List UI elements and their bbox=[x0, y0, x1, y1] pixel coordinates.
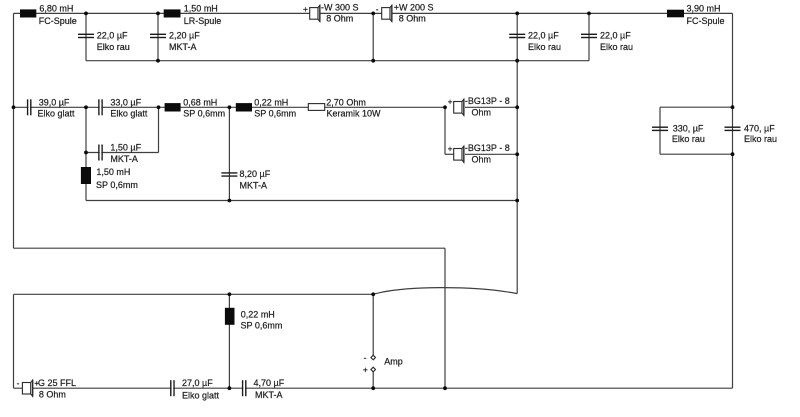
svg-text:FC-Spule: FC-Spule bbox=[39, 16, 77, 26]
svg-text:Elko rau: Elko rau bbox=[744, 134, 777, 144]
resistor 2,70 Ohm Keramik 10W bbox=[308, 97, 381, 118]
speaker W 200 S bbox=[376, 3, 434, 24]
svg-text:8 Ohm: 8 Ohm bbox=[326, 13, 353, 23]
capacitor 22,0 uF Elko rau (x=517) bbox=[509, 30, 561, 52]
capacitor 8,20 uF MKT-A (shunt) bbox=[221, 169, 270, 191]
inductor 1,50 mH SP 0,6mm (vertical) bbox=[81, 167, 138, 190]
amp terminal plus bbox=[363, 365, 376, 375]
svg-text:Elko rau: Elko rau bbox=[600, 42, 633, 52]
svg-text:Amp: Amp bbox=[384, 356, 403, 366]
node dot (158,13) bbox=[156, 12, 160, 16]
capacitor 33,0 uF Elko glatt bbox=[99, 97, 148, 118]
capacitor 27,0 uF Elko glatt bbox=[171, 378, 220, 401]
svg-text:8 Ohm: 8 Ohm bbox=[399, 13, 426, 23]
node dot (86,107) bbox=[84, 105, 88, 109]
node dot (732,107) bbox=[731, 105, 735, 109]
wire amp plus lead bbox=[372, 372, 374, 389]
node dot (158,107) bbox=[157, 105, 161, 109]
svg-text:1,50 µF: 1,50 µF bbox=[110, 143, 141, 153]
wire top rail y=13 bbox=[14, 12, 733, 14]
wire branch y=152.5 bbox=[86, 152, 159, 154]
svg-text:330, µF: 330, µF bbox=[673, 123, 704, 133]
svg-text:-: - bbox=[376, 4, 379, 14]
wire amp minus lead bbox=[372, 294, 374, 355]
wire shunt rail x=158 top bbox=[157, 13, 159, 60]
svg-text:-BG13P - 8: -BG13P - 8 bbox=[465, 96, 510, 106]
svg-text:Keramik 10W: Keramik 10W bbox=[327, 109, 382, 119]
node dot (373,388) bbox=[371, 386, 375, 390]
svg-text:470, µF: 470, µF bbox=[744, 123, 775, 133]
inductor 3,90 mH FC-Spule bbox=[667, 3, 725, 26]
wire speaker2 row y=154 bbox=[445, 153, 454, 155]
capacitor 330 uF Elko rau bbox=[652, 123, 705, 144]
speaker W 300 S bbox=[303, 3, 359, 24]
wire bottom rail y=388 bbox=[14, 387, 733, 389]
speaker BG13P upper bbox=[448, 96, 510, 117]
wire vertical x=229.5 bottom inductor bbox=[228, 294, 230, 388]
svg-text:G 25 FFL: G 25 FFL bbox=[38, 378, 76, 388]
svg-text:39,0 µF: 39,0 µF bbox=[39, 97, 70, 107]
svg-text:MKT-A: MKT-A bbox=[240, 180, 268, 190]
svg-text:Ohm: Ohm bbox=[472, 155, 492, 165]
node dot (517,200) bbox=[515, 199, 519, 203]
capacitor 22,0 uF Elko rau (x=86) bbox=[78, 30, 130, 52]
node dot (86,152.5) bbox=[84, 151, 88, 155]
svg-text:SP 0,6mm: SP 0,6mm bbox=[183, 109, 225, 119]
svg-text:Elko glatt: Elko glatt bbox=[182, 391, 220, 401]
svg-text:-: - bbox=[17, 378, 20, 388]
wire shunt rail x=86 top bbox=[85, 13, 87, 60]
svg-text:-W 300 S: -W 300 S bbox=[321, 3, 359, 13]
node dot (229,200) bbox=[228, 199, 232, 203]
svg-text:8,20 µF: 8,20 µF bbox=[240, 169, 271, 179]
node dot (373,294) bbox=[371, 292, 375, 296]
svg-text:+: + bbox=[448, 143, 453, 153]
speaker G 25 FFL bbox=[17, 378, 76, 400]
node dot (589,13) bbox=[587, 12, 591, 16]
wire shunt rail x=589 cap bbox=[588, 13, 590, 60]
capacitor 2,20 uF MKT-A (x=158) bbox=[150, 30, 200, 52]
svg-text:Elko rau: Elko rau bbox=[97, 42, 130, 52]
node dot (229,107) bbox=[228, 105, 232, 109]
wire main return rail x=517 bbox=[516, 61, 518, 294]
node dot (517,154) bbox=[515, 152, 519, 156]
svg-text:SP 0,6mm: SP 0,6mm bbox=[96, 180, 138, 190]
svg-text:1,50 mH: 1,50 mH bbox=[184, 3, 218, 13]
node dot (373,13) bbox=[371, 12, 375, 16]
svg-text:4,70 µF: 4,70 µF bbox=[254, 378, 285, 388]
wire right rail x=732 bbox=[732, 13, 734, 388]
node dot (517,13) bbox=[515, 12, 519, 16]
svg-text:22,0 µF: 22,0 µF bbox=[528, 30, 559, 40]
wire vertical x=445 speakers bbox=[444, 107, 446, 154]
node dot (158,61) bbox=[156, 59, 160, 63]
capacitor 4,70 uF MKT-A bbox=[243, 378, 285, 400]
svg-text:2,20 µF: 2,20 µF bbox=[169, 30, 200, 40]
inductor 0,22 mH SP 0,6mm (bottom) bbox=[225, 308, 282, 331]
svg-text:22,0 µF: 22,0 µF bbox=[97, 30, 128, 40]
wire left rail x=14 lower bbox=[13, 294, 15, 388]
wire return bus y=61 top section bbox=[86, 60, 589, 62]
inductor 0,22 mH SP 0,6mm (mid) bbox=[236, 97, 296, 118]
svg-text:33,0 µF: 33,0 µF bbox=[110, 97, 141, 107]
node dot (229,294) bbox=[228, 292, 232, 296]
wire vertical x=373 top bbox=[372, 13, 374, 60]
svg-text:-BG13P - 8: -BG13P - 8 bbox=[465, 143, 510, 153]
capacitor 39,0 uF Elko glatt bbox=[28, 97, 75, 118]
wire box 330uF top y=107 bbox=[660, 106, 733, 108]
node dot (732,154) bbox=[731, 152, 735, 156]
wire mid rail y=107 bbox=[14, 106, 446, 108]
node dot (373,61) bbox=[371, 59, 375, 63]
svg-text:LR-Spule: LR-Spule bbox=[184, 16, 222, 26]
svg-text:6,80 mH: 6,80 mH bbox=[39, 3, 73, 13]
node dot (14,107) bbox=[12, 105, 16, 109]
speaker BG13P lower bbox=[448, 143, 510, 164]
node dot (229,388) bbox=[228, 386, 232, 390]
svg-text:MKT-A: MKT-A bbox=[110, 154, 138, 164]
svg-text:FC-Spule: FC-Spule bbox=[687, 16, 725, 26]
wire y=248 horizontal bbox=[14, 247, 446, 249]
wire vertical x=229.5 shunt cap bbox=[228, 107, 230, 200]
svg-text:+: + bbox=[448, 96, 453, 106]
node dot (517,61) bbox=[515, 59, 519, 63]
inductor 6,80 mH FC-Spule bbox=[20, 3, 77, 26]
svg-text:8 Ohm: 8 Ohm bbox=[39, 389, 66, 399]
wire curved link to return rail bbox=[373, 288, 517, 295]
svg-text:1,50 mH: 1,50 mH bbox=[96, 167, 130, 177]
svg-text:Elko glatt: Elko glatt bbox=[38, 109, 76, 119]
wire speaker2 output to rail bbox=[465, 153, 517, 155]
svg-text:0,22 mH: 0,22 mH bbox=[254, 97, 288, 107]
svg-text:Ohm: Ohm bbox=[472, 108, 492, 118]
wire bottom section top y=294 bbox=[14, 293, 374, 295]
wire box 330uF left x=660 bbox=[659, 107, 661, 154]
svg-text:3,90 mH: 3,90 mH bbox=[687, 3, 721, 13]
capacitor 1,50 uF MKT-A bbox=[99, 143, 142, 164]
svg-text:SP 0,6mm: SP 0,6mm bbox=[241, 321, 283, 331]
svg-text:+: + bbox=[363, 365, 368, 375]
wire shunt rail x=517 cap bbox=[516, 13, 518, 60]
wire vertical x=158.5 branch bbox=[158, 107, 160, 152]
wire bottom bus y=200 mid section bbox=[86, 200, 517, 202]
inductor 0,68 mH SP 0,6mm bbox=[165, 97, 226, 118]
wire speaker1 output to rail bbox=[465, 106, 517, 108]
wire vertical x=445 lower bbox=[444, 248, 446, 388]
node dot (445,388) bbox=[443, 386, 447, 390]
svg-text:22,0 µF: 22,0 µF bbox=[600, 30, 631, 40]
node dot (445,107) bbox=[443, 105, 447, 109]
svg-text:Elko rau: Elko rau bbox=[528, 42, 561, 52]
amp terminal minus bbox=[364, 352, 376, 362]
capacitor 470 uF Elko rau bbox=[725, 123, 778, 144]
svg-text:0,68 mH: 0,68 mH bbox=[183, 97, 217, 107]
svg-text:+W 200 S: +W 200 S bbox=[394, 3, 434, 13]
svg-text:27,0 µF: 27,0 µF bbox=[182, 378, 213, 388]
svg-text:2,70 Ohm: 2,70 Ohm bbox=[326, 97, 366, 107]
node dot (517,107) bbox=[515, 105, 519, 109]
node dot (86,13) bbox=[84, 12, 88, 16]
svg-text:MKT-A: MKT-A bbox=[169, 42, 197, 52]
svg-text:0,22 mH: 0,22 mH bbox=[241, 310, 275, 320]
svg-text:+: + bbox=[303, 4, 308, 14]
wire left rail x=14 upper bbox=[13, 13, 15, 248]
svg-text:Elko rau: Elko rau bbox=[672, 134, 705, 144]
svg-text:SP 0,6mm: SP 0,6mm bbox=[254, 109, 296, 119]
svg-text:MKT-A: MKT-A bbox=[255, 390, 283, 400]
wire box 330uF bottom y=154 bbox=[660, 153, 733, 155]
wire vertical x=86 mid branch bbox=[85, 107, 87, 200]
svg-text:Elko glatt: Elko glatt bbox=[110, 109, 148, 119]
svg-text:-: - bbox=[364, 352, 367, 362]
capacitor 22,0 uF Elko rau (x=589) bbox=[581, 30, 633, 52]
inductor 1,50 mH LR-Spule bbox=[164, 3, 222, 26]
